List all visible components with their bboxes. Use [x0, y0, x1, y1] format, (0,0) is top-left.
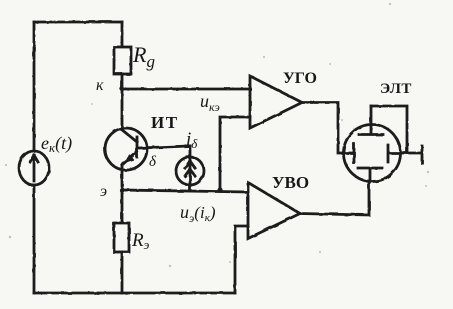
terminal — [421, 146, 424, 163]
svg-text:УВО: УВО — [272, 173, 309, 192]
svg-text:ИТ: ИТ — [151, 113, 179, 132]
svg-text:Rэ: Rэ — [131, 230, 150, 252]
wire top rail — [34, 21, 122, 24]
current source i_b — [176, 157, 204, 190]
svg-text:uэ(iк): uэ(iк) — [180, 202, 216, 225]
svg-text:iδ: iδ — [186, 129, 198, 151]
wire bottom rail — [34, 292, 235, 295]
wire base to i_b — [138, 146, 190, 157]
wire emitter to node e — [121, 165, 124, 190]
svg-text:ЭЛТ: ЭЛТ — [380, 81, 412, 97]
svg-text:δ: δ — [149, 154, 157, 170]
svg-text:uкэ: uкэ — [200, 91, 220, 114]
node e — [119, 187, 124, 192]
bottom plate — [358, 168, 382, 181]
right plate — [388, 145, 422, 162]
bracket top plate to right line — [371, 106, 407, 153]
left plate — [343, 144, 354, 163]
op-amp UGO — [250, 76, 302, 128]
svg-text:УГО: УГО — [283, 70, 317, 87]
transistor IT — [105, 128, 147, 170]
svg-text:э: э — [100, 183, 107, 200]
svg-text:eк(t): eк(t) — [41, 133, 72, 155]
wire left vertical — [33, 22, 36, 293]
wire bottom rail to UVO lower input — [235, 226, 248, 293]
svg-text:Rg: Rg — [132, 42, 155, 71]
wire k down to transistor — [121, 89, 124, 128]
resistor Rg — [114, 22, 131, 89]
top plate — [359, 106, 383, 135]
wire UGO output to CRT left plate — [302, 103, 343, 154]
source e_k(t) — [19, 151, 49, 185]
node u_ke tap — [217, 187, 222, 192]
wire e line to UVO input — [122, 190, 248, 192]
op-amp UVO — [248, 183, 300, 239]
scan speckles (decorative) — [5, 3, 429, 267]
wire k to UGO input — [122, 88, 250, 91]
resistor Re — [114, 190, 129, 293]
svg-text:к: к — [96, 77, 104, 94]
wire u_ke tap to UGO lower input — [220, 117, 250, 190]
node k — [120, 87, 124, 91]
wire UVO output to CRT bottom plate — [300, 181, 369, 215]
CRT ELT — [343, 106, 422, 182]
